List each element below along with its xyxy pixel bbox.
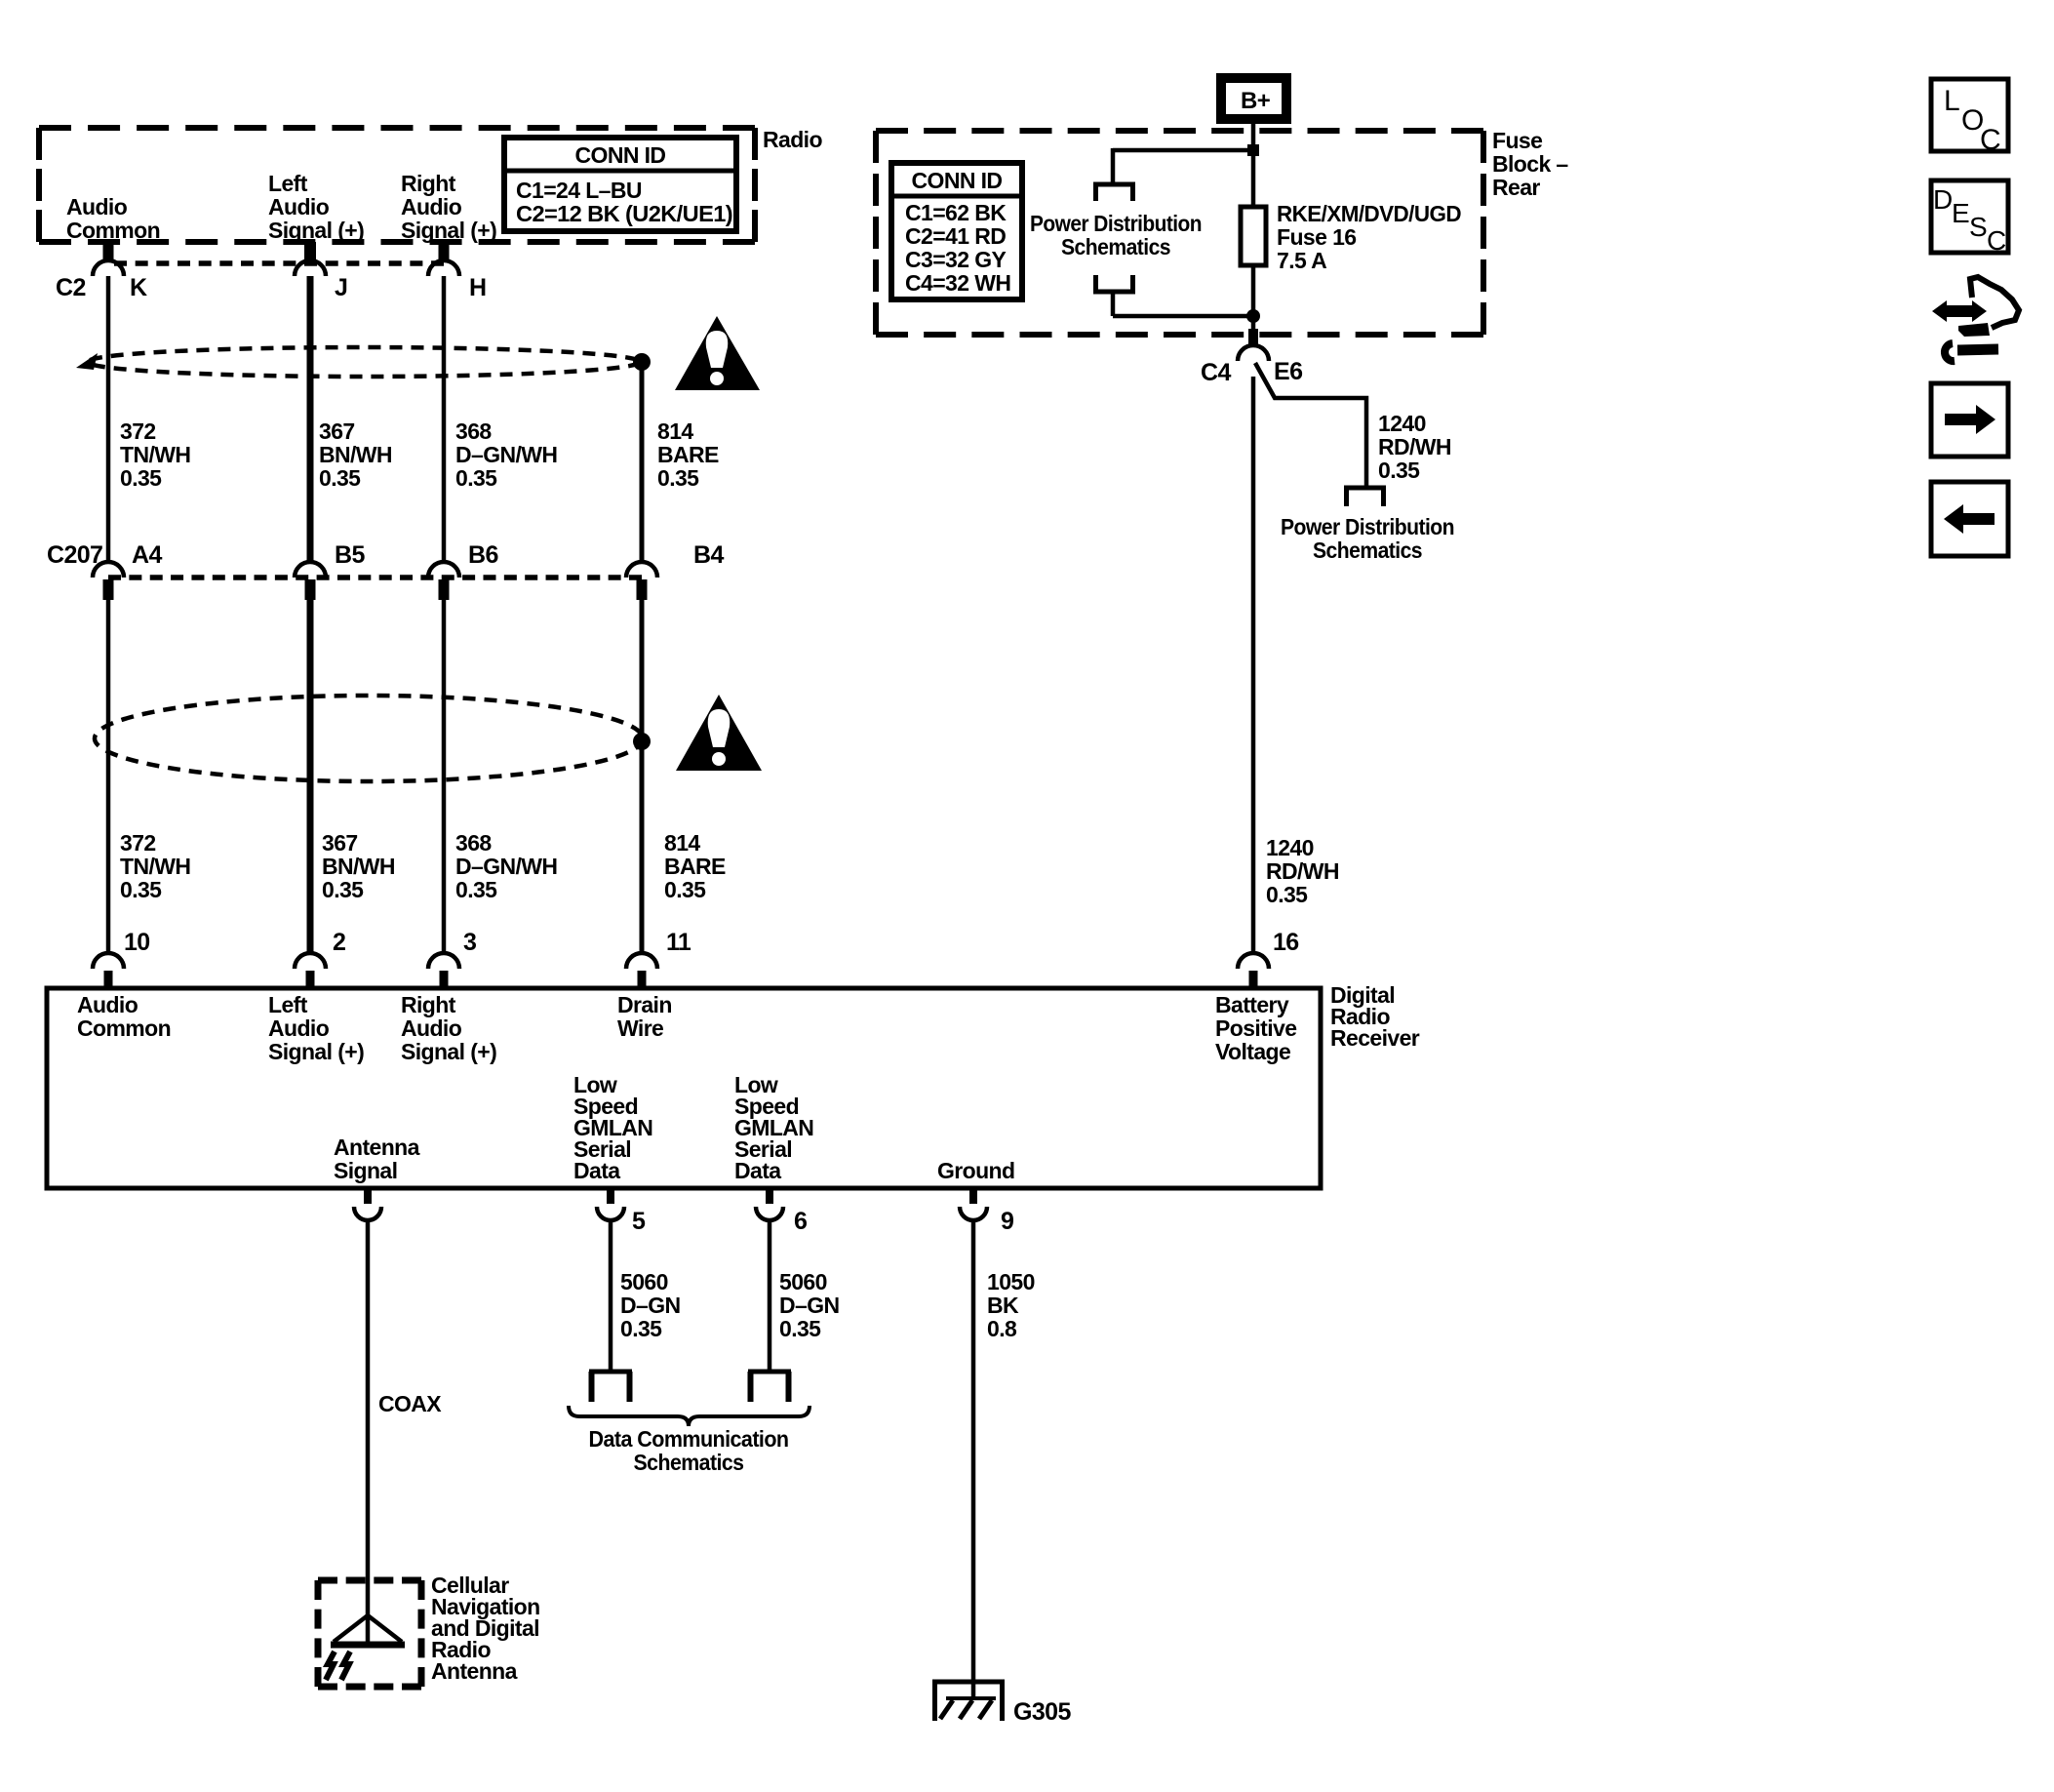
label Audio Common (receiver pin 10) [77, 992, 171, 1041]
svg-text:Schematics: Schematics [1313, 538, 1422, 563]
label G305 [1013, 1698, 1071, 1726]
wire COAX antenna lead [366, 1220, 371, 1645]
svg-text:Power Distribution: Power Distribution [1281, 514, 1454, 539]
svg-text:5060: 5060 [620, 1269, 668, 1294]
svg-text:RD/WH: RD/WH [1266, 858, 1339, 884]
svg-text:TN/WH: TN/WH [120, 854, 190, 879]
svg-text:0.35: 0.35 [779, 1316, 821, 1341]
off-page connector to Power Distribution Schematics (lower half) [1093, 275, 1135, 292]
svg-text:B4: B4 [693, 541, 724, 569]
svg-text:1240: 1240 [1266, 835, 1314, 860]
svg-text:E6: E6 [1274, 358, 1302, 385]
label circuit 814 BARE 0.35 (upper) [657, 418, 719, 491]
label circuit 5060 D-GN 0.35 (pin 5) [620, 1269, 681, 1341]
svg-text:0.35: 0.35 [1378, 458, 1420, 483]
svg-text:0.35: 0.35 [455, 877, 497, 902]
label Radio [763, 127, 822, 152]
svg-text:Data: Data [734, 1158, 781, 1183]
component Digital Radio Receiver (box) [47, 988, 1321, 1188]
svg-text:C2: C2 [56, 274, 86, 301]
svg-text:S: S [1969, 212, 1987, 242]
label circuit 368 D-GN/WH 0.35 (lower) [455, 830, 557, 902]
wire B+ feed (vertical) [1251, 119, 1256, 207]
label Right Audio Signal (+) (receiver pin 3) [401, 992, 496, 1064]
pin 10 of Digital Radio Receiver [93, 929, 150, 988]
svg-text:367: 367 [322, 830, 358, 856]
pin B6 of connector C207 [428, 541, 498, 600]
icon wrench with arrows [1932, 277, 2019, 361]
svg-text:Audio: Audio [401, 194, 462, 219]
label circuit 1240 RD/WH 0.35 (main) [1266, 835, 1339, 907]
wire 1050 BK 0.8 ground lead [971, 1220, 976, 1697]
svg-text:C: C [1980, 124, 2000, 156]
svg-text:368: 368 [455, 418, 492, 444]
svg-text:0.35: 0.35 [664, 877, 706, 902]
svg-text:0.35: 0.35 [120, 877, 162, 902]
svg-text:Left: Left [268, 171, 308, 196]
svg-text:0.35: 0.35 [1266, 882, 1308, 907]
svg-text:5: 5 [632, 1208, 646, 1235]
junction dot at fuse output [1246, 309, 1260, 323]
off-page connector to Data Communication (pin 6) [748, 1372, 791, 1402]
svg-text:Schematics: Schematics [1061, 234, 1170, 259]
icon forward arrow box [1931, 383, 2008, 457]
svg-text:Block –: Block – [1492, 151, 1568, 177]
label RKE/XM/DVD/UGD Fuse 16 7.5 A [1277, 201, 1461, 273]
wire 368 D-GN/WH 0.35 (lower segment) [442, 600, 447, 953]
svg-text:Power Distribution: Power Distribution [1030, 211, 1202, 236]
svg-text:K: K [130, 274, 147, 301]
pin J of connector C2 [295, 242, 347, 301]
label C207 [47, 541, 102, 569]
ground G305 symbol [932, 1682, 1005, 1721]
label Left Audio Signal (+) (receiver pin 2) [268, 992, 364, 1064]
wire branch to Power Distribution schematics (E6) [1255, 363, 1366, 486]
wire 814 BARE 0.35 drain (upper segment) [640, 362, 645, 562]
svg-text:C: C [1987, 225, 2006, 256]
pin K of connector C2 [93, 242, 147, 301]
label Left Audio Signal (+) (Radio pin J) [268, 171, 364, 243]
svg-text:1050: 1050 [987, 1269, 1035, 1294]
svg-text:Battery: Battery [1215, 992, 1289, 1017]
svg-text:TN/WH: TN/WH [120, 442, 190, 467]
off-page connector to Power Distribution Schematics (upper half) [1093, 184, 1135, 201]
pin 5 of receiver [597, 1188, 646, 1235]
svg-text:Receiver: Receiver [1330, 1025, 1420, 1051]
svg-text:Audio: Audio [77, 992, 138, 1017]
shield twisted-pair ellipse (lower) [95, 696, 643, 781]
label Battery Positive Voltage (receiver pin 16) [1215, 992, 1296, 1064]
svg-text:C1=24 L–BU: C1=24 L–BU [516, 178, 642, 203]
svg-text:1240: 1240 [1378, 411, 1426, 436]
svg-text:Signal (+): Signal (+) [268, 218, 364, 243]
label Power Distribution Schematics (fuse block) [1030, 211, 1202, 259]
svg-text:814: 814 [664, 830, 700, 856]
wire 5060 D-GN 0.35 (pin 6) [768, 1220, 772, 1370]
svg-text:16: 16 [1273, 929, 1299, 956]
label Right Audio Signal (+) (Radio pin H) [401, 171, 496, 243]
svg-text:372: 372 [120, 830, 156, 856]
svg-text:7.5 A: 7.5 A [1277, 248, 1326, 273]
label circuit 1240 RD/WH 0.35 (branch) [1378, 411, 1451, 483]
wire branch to Power Distribution (bottom) [1113, 292, 1253, 316]
svg-text:814: 814 [657, 418, 693, 444]
component Fuse Block - Rear (dashed outline) [876, 131, 1483, 335]
warning triangle (upper) [675, 316, 760, 390]
svg-text:BARE: BARE [657, 442, 719, 467]
label Ground (receiver pin 9) [937, 1158, 1014, 1183]
svg-text:C4=32 WH: C4=32 WH [905, 270, 1010, 296]
svg-text:Schematics: Schematics [634, 1450, 744, 1475]
pin 9 of receiver [960, 1188, 1013, 1235]
pin 2 of Digital Radio Receiver [295, 929, 345, 988]
junction dot drain wire (upper shield) [633, 353, 651, 371]
table CONN ID (Fuse Block): C1=62 BK / C2=41 RD / C3=32 GY / C4=32 WH [891, 163, 1022, 299]
brace Data Communication [569, 1406, 810, 1426]
svg-text:Radio: Radio [763, 127, 822, 152]
svg-text:C207: C207 [47, 541, 102, 569]
svg-text:Signal (+): Signal (+) [268, 1039, 364, 1064]
svg-text:Common: Common [66, 218, 160, 243]
wire 368 D-GN/WH 0.35 (upper segment) [442, 276, 447, 562]
svg-text:Common: Common [77, 1015, 171, 1041]
svg-text:Rear: Rear [1492, 175, 1540, 200]
svg-text:G305: G305 [1013, 1698, 1071, 1726]
warning triangle (lower) [676, 695, 762, 771]
component Radio (dashed outline) [39, 128, 755, 242]
label Audio Common (Radio pin K) [66, 194, 160, 243]
pin H of connector C2 [428, 242, 486, 301]
svg-text:368: 368 [455, 830, 492, 856]
svg-text:C4: C4 [1201, 359, 1231, 386]
pin 16 of Digital Radio Receiver [1238, 929, 1299, 988]
table CONN ID (Radio): C1=24 L-BU / C2=12 BK (U2K/UE1) [504, 138, 736, 231]
icon DESC box [1931, 180, 2008, 256]
svg-text:C2=12 BK (U2K/UE1): C2=12 BK (U2K/UE1) [516, 201, 732, 226]
label C2 [56, 274, 86, 301]
svg-text:BN/WH: BN/WH [319, 442, 392, 467]
wire 5060 D-GN 0.35 (pin 5) [609, 1220, 613, 1370]
svg-text:D–GN: D–GN [620, 1293, 681, 1318]
svg-text:0.35: 0.35 [455, 465, 497, 491]
label circuit 5060 D-GN 0.35 (pin 6) [779, 1269, 840, 1341]
junction dot at B+ feed [1247, 144, 1259, 156]
svg-text:9: 9 [1001, 1208, 1013, 1235]
svg-text:BARE: BARE [664, 854, 726, 879]
svg-text:Left: Left [268, 992, 308, 1017]
svg-text:6: 6 [794, 1208, 807, 1235]
antenna symbol [331, 1615, 405, 1645]
svg-text:BN/WH: BN/WH [322, 854, 395, 879]
label circuit 1050 BK 0.8 [987, 1269, 1035, 1341]
svg-text:D–GN/WH: D–GN/WH [455, 442, 557, 467]
off-page connector to Data Communication (pin 5) [589, 1372, 632, 1402]
label circuit 372 TN/WH 0.35 (lower) [120, 830, 190, 902]
svg-text:0.35: 0.35 [322, 877, 364, 902]
svg-text:Drain: Drain [617, 992, 672, 1017]
svg-text:Signal: Signal [334, 1158, 397, 1183]
svg-text:L: L [1944, 85, 1959, 117]
component Cellular Navigation and Digital Radio Antenna (dashed outline) [318, 1580, 421, 1687]
svg-text:10: 10 [124, 929, 150, 956]
svg-text:D–GN/WH: D–GN/WH [455, 854, 557, 879]
svg-text:D–GN: D–GN [779, 1293, 840, 1318]
pin 11 of Digital Radio Receiver [626, 929, 691, 988]
wire 1240 RD/WH 0.35 battery feed [1251, 377, 1256, 953]
label circuit 814 BARE 0.35 (lower) [664, 830, 726, 902]
icon back arrow box [1931, 482, 2008, 556]
svg-text:5060: 5060 [779, 1269, 827, 1294]
svg-text:Audio: Audio [401, 1015, 462, 1041]
label Cellular Navigation and Digital Radio Antenna [431, 1573, 540, 1684]
svg-text:2: 2 [333, 929, 345, 956]
terminal B+ [1221, 78, 1286, 119]
svg-text:Right: Right [401, 171, 456, 196]
svg-text:11: 11 [666, 929, 691, 956]
label Data Communication Schematics [589, 1426, 789, 1475]
label Antenna Signal (receiver antenna pin) [334, 1135, 420, 1183]
shield twisted-pair ellipse (upper) [76, 347, 640, 377]
wire 372 TN/WH 0.35 (lower segment) [106, 600, 111, 953]
connector C207 dashed tie line [108, 575, 642, 580]
svg-text:CONN ID: CONN ID [575, 142, 666, 168]
svg-text:Antenna: Antenna [334, 1135, 420, 1160]
svg-text:H: H [469, 274, 486, 301]
svg-text:Data: Data [573, 1158, 620, 1183]
svg-text:Ground: Ground [937, 1158, 1014, 1183]
label circuit 368 D-GN/WH 0.35 (upper) [455, 418, 557, 491]
svg-text:0.35: 0.35 [620, 1316, 662, 1341]
label Digital Radio Receiver [1330, 982, 1420, 1051]
svg-text:Wire: Wire [617, 1015, 663, 1041]
svg-text:Signal (+): Signal (+) [401, 218, 496, 243]
svg-text:D: D [1933, 184, 1953, 215]
wire 367 BN/WH 0.35 (upper segment) [307, 276, 314, 562]
junction dot drain wire (lower shield) [633, 733, 651, 750]
svg-text:Antenna: Antenna [431, 1658, 518, 1684]
svg-text:Fuse: Fuse [1492, 128, 1542, 153]
svg-text:Data Communication: Data Communication [589, 1426, 789, 1452]
svg-text:Right: Right [401, 992, 456, 1017]
svg-text:B5: B5 [335, 541, 365, 569]
svg-text:367: 367 [319, 418, 355, 444]
svg-text:0.8: 0.8 [987, 1316, 1017, 1341]
svg-text:0.35: 0.35 [319, 465, 361, 491]
svg-text:3: 3 [463, 929, 476, 956]
icon LOC box [1931, 79, 2008, 156]
svg-text:372: 372 [120, 418, 156, 444]
static/lightning marks [326, 1652, 350, 1680]
svg-text:0.35: 0.35 [657, 465, 699, 491]
label Drain Wire (receiver pin 11) [617, 992, 672, 1041]
svg-text:CONN ID: CONN ID [912, 168, 1003, 193]
label circuit 367 BN/WH 0.35 (lower) [322, 830, 395, 902]
svg-text:B+: B+ [1241, 88, 1271, 114]
connector C2 dashed tie line [114, 260, 444, 266]
svg-text:0.35: 0.35 [120, 465, 162, 491]
wire 372 TN/WH 0.35 (upper segment) [106, 276, 111, 562]
svg-text:Voltage: Voltage [1215, 1039, 1290, 1064]
svg-text:RD/WH: RD/WH [1378, 434, 1451, 459]
svg-text:Audio: Audio [268, 194, 330, 219]
label Power Distribution Schematics (branch) [1281, 514, 1454, 563]
pin B5 of connector C207 [295, 541, 365, 600]
svg-text:Audio: Audio [268, 1015, 330, 1041]
svg-text:Signal (+): Signal (+) [401, 1039, 496, 1064]
svg-text:B6: B6 [468, 541, 498, 569]
wire 814 BARE 0.35 drain (lower segment) [640, 600, 645, 953]
label circuit 367 BN/WH 0.35 (upper) [319, 418, 392, 491]
svg-text:Audio: Audio [66, 194, 128, 219]
svg-text:RKE/XM/DVD/UGD: RKE/XM/DVD/UGD [1277, 201, 1461, 226]
svg-text:BK: BK [987, 1293, 1019, 1318]
label Low Speed GMLAN Serial Data (receiver pin 5) [573, 1072, 652, 1183]
svg-text:C2=41 RD: C2=41 RD [905, 223, 1006, 249]
svg-text:A4: A4 [132, 541, 162, 569]
svg-text:Fuse 16: Fuse 16 [1277, 224, 1356, 250]
wire fuse output (vertical) [1251, 265, 1256, 329]
pin B4 of connector C207 [626, 541, 724, 600]
svg-text:E: E [1952, 198, 1969, 228]
antenna output pin of receiver [354, 1188, 381, 1220]
label Low Speed GMLAN Serial Data (receiver pin 6) [734, 1072, 813, 1183]
pin 3 of Digital Radio Receiver [428, 929, 476, 988]
svg-text:C1=62 BK: C1=62 BK [905, 200, 1007, 225]
label COAX [378, 1391, 442, 1416]
svg-text:J: J [335, 274, 347, 301]
pin 6 of receiver [756, 1188, 807, 1235]
pin E6 of connector C4 [1201, 329, 1302, 386]
label circuit 372 TN/WH 0.35 (upper) [120, 418, 190, 491]
pin A4 of connector C207 [93, 541, 162, 600]
wire branch to Power Distribution (top) [1113, 148, 1253, 184]
fuse RKE/XM/DVD/UGD Fuse 16 7.5 A [1241, 207, 1266, 265]
label Fuse Block - Rear [1492, 128, 1568, 200]
off-page connector to Power Distribution Schematics (branch) [1344, 488, 1386, 506]
svg-text:C3=32 GY: C3=32 GY [905, 247, 1006, 272]
svg-text:COAX: COAX [378, 1391, 442, 1416]
wire 367 BN/WH 0.35 (lower segment) [307, 600, 314, 953]
svg-text:Positive: Positive [1215, 1015, 1296, 1041]
